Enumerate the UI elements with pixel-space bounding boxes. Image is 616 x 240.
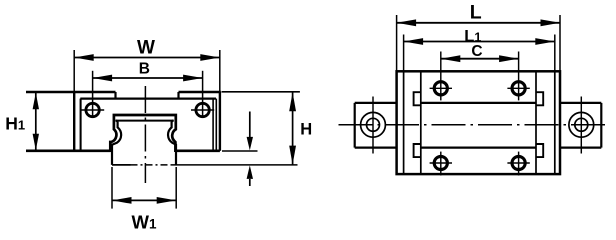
svg-text:C: C	[471, 43, 482, 60]
svg-text:H: H	[300, 121, 312, 139]
svg-text:B: B	[139, 61, 150, 78]
svg-text:L: L	[470, 1, 482, 23]
svg-text:W: W	[137, 37, 155, 58]
